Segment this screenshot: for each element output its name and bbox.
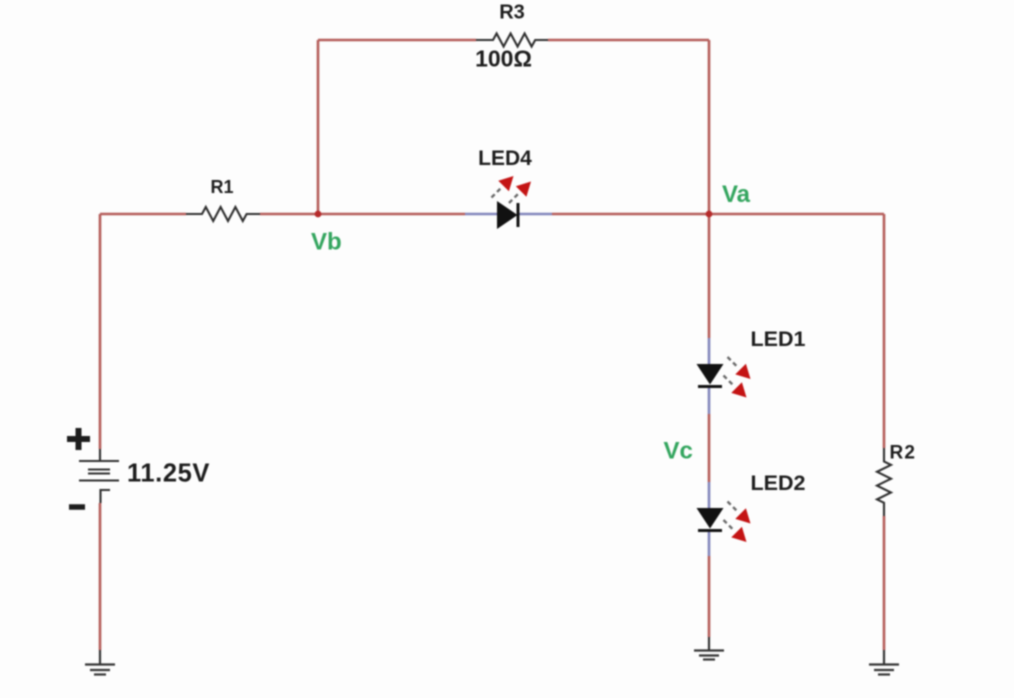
- battery V1: [79, 449, 119, 503]
- wire: left vertical, rail to battery: [99, 214, 102, 449]
- svg-text:R3: R3: [499, 2, 525, 24]
- LED4 diode symbol: [497, 201, 518, 229]
- LED2 emission arrows: [724, 502, 751, 543]
- wire: vertical from top rail to node Vb: [317, 40, 320, 214]
- svg-text:11.25V: 11.25V: [127, 460, 210, 488]
- wire: LED1 to LED2: [708, 414, 711, 482]
- LED1 diode symbol: [697, 364, 724, 387]
- wire: LED4 left pin: [465, 213, 497, 216]
- svg-text:LED2: LED2: [751, 471, 806, 495]
- resistor R2: [877, 448, 891, 516]
- battery plus sign: [67, 428, 90, 450]
- wire: LED4 right pin: [518, 213, 552, 216]
- wire: Va down to LED1: [708, 214, 711, 338]
- node Vb junction dot: [315, 211, 322, 218]
- wire: LED1 bottom pin: [708, 387, 711, 414]
- svg-text:LED4: LED4: [478, 147, 532, 170]
- wire: right vertical, rail corner to R2: [883, 214, 886, 448]
- battery minus sign: [69, 504, 85, 510]
- wire: top rail left of R3: [318, 39, 476, 42]
- component pin leads (blue): [465, 214, 709, 556]
- ground right: [869, 650, 899, 675]
- ground left: [85, 650, 115, 675]
- wire: LED1 top pin: [708, 338, 711, 364]
- svg-text:LED1: LED1: [751, 327, 806, 351]
- wire: LED2 bottom pin: [708, 531, 711, 556]
- resistor R1: [186, 207, 260, 221]
- LED4 emission arrows: [492, 176, 532, 203]
- node Va junction dot: [706, 211, 713, 218]
- svg-text:Vb: Vb: [311, 229, 342, 256]
- svg-text:R1: R1: [210, 177, 233, 197]
- wire: LED2 top pin: [708, 482, 711, 508]
- wire: top rail right of R3: [548, 39, 709, 42]
- wire: R2 to right ground: [883, 516, 886, 650]
- svg-text:Vc: Vc: [664, 438, 693, 465]
- wire: left vertical, battery to ground: [99, 503, 102, 650]
- wire top rail: [100, 40, 884, 650]
- ground middle: [694, 637, 724, 660]
- svg-text:Va: Va: [722, 181, 751, 208]
- wire: main rail LED4 to Va and corner: [552, 213, 884, 216]
- wire: vertical from top rail to node Va: [708, 40, 711, 214]
- wire: LED2 to middle ground: [708, 556, 711, 637]
- wire: main rail from left corner to R1: [100, 213, 186, 216]
- svg-text:R2: R2: [890, 443, 917, 464]
- LED1 emission arrows: [724, 357, 751, 398]
- wire: main rail R1 to LED4: [260, 213, 465, 216]
- svg-text:100Ω: 100Ω: [475, 46, 532, 72]
- resistor R3: [476, 34, 548, 47]
- LED2 diode symbol: [697, 508, 724, 531]
